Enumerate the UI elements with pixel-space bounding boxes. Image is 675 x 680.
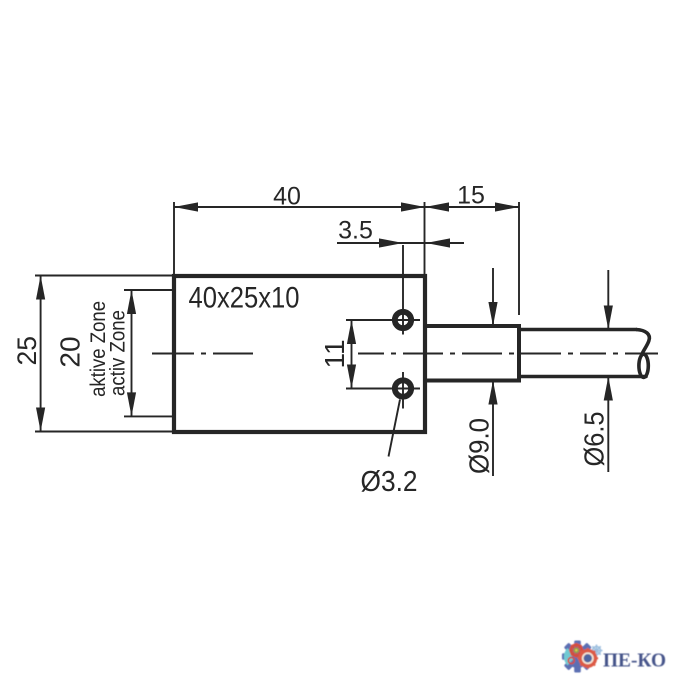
dim 25 dimension line xyxy=(40,276,42,432)
dim 20 top arrowhead xyxy=(127,290,136,314)
cable break curve xyxy=(636,330,649,355)
dim 20 dimension line xyxy=(131,290,133,416)
dim 20 bottom arrowhead xyxy=(127,392,136,416)
dim Ø9.0 lower line xyxy=(492,381,494,477)
cylinder end cap xyxy=(517,324,521,383)
dim 15 right arrowhead xyxy=(495,202,519,211)
sensor body outline 40x25x10 xyxy=(174,276,425,432)
dim 20 top extension line xyxy=(124,289,172,291)
centerline right segment xyxy=(358,353,658,355)
svg-text:Ø3.2: Ø3.2 xyxy=(361,466,418,498)
dim 15 dimension line xyxy=(425,206,519,208)
svg-text:15: 15 xyxy=(457,182,485,210)
svg-text:3.5: 3.5 xyxy=(338,217,373,245)
logo large red gear lower-right xyxy=(580,651,595,666)
hole H2 horizontal center mark / 11-dim lower extension xyxy=(346,388,420,390)
svg-text:11: 11 xyxy=(319,339,350,368)
logo small red ring bottom-left xyxy=(568,658,574,664)
dim 25 top arrowhead xyxy=(36,276,45,300)
dim 11 bottom arrowhead xyxy=(347,365,356,389)
hole H1 horizontal center mark / 11-dim upper extension xyxy=(346,319,420,321)
dim Ø6.5 lower arrowhead xyxy=(604,377,613,401)
dim 11 top arrowhead xyxy=(347,320,356,344)
cable break loop xyxy=(639,354,648,377)
logo large red gear blue center xyxy=(584,654,592,662)
dim 3.5 right arrowhead xyxy=(426,238,450,247)
dim 20 bottom extension line xyxy=(124,415,172,417)
cylinder Ø9 top edge xyxy=(425,324,519,328)
svg-text:40x25x10: 40x25x10 xyxy=(189,282,300,315)
hole H1 upper ring xyxy=(395,312,411,328)
dim 3.5 left arrowhead xyxy=(379,238,403,247)
logo small red gear upper-left xyxy=(571,645,582,656)
svg-text:ПЕ-КО: ПЕ-КО xyxy=(603,651,666,672)
dim 25 top extension line xyxy=(35,275,172,277)
logo small red gear center xyxy=(574,648,579,653)
dim 40 dimension line xyxy=(174,206,425,208)
dim Ø6.5 lower line xyxy=(607,377,609,473)
logo large red gear white ring xyxy=(583,653,593,663)
svg-text:40: 40 xyxy=(273,183,301,211)
svg-text:25: 25 xyxy=(12,336,42,365)
cable Ø6.5 top edge xyxy=(519,328,637,332)
dim 3.5 dimension line xyxy=(337,242,464,244)
dim 40 left arrowhead xyxy=(174,202,198,211)
logo small blue sparkle gear top-right xyxy=(591,645,603,657)
dim Ø6.5 upper arrowhead xyxy=(604,306,613,330)
dim 40 left extension line xyxy=(173,202,175,274)
svg-text:Ø6.5: Ø6.5 xyxy=(579,412,610,467)
dim 25 bottom arrowhead xyxy=(36,408,45,432)
logo teal accent on gear left xyxy=(564,648,573,666)
watermark logo ПЕ-КО xyxy=(562,641,666,673)
svg-text:activ Zone: activ Zone xyxy=(106,310,130,396)
dim 15 left arrowhead xyxy=(425,202,449,211)
dim Ø6.5 upper line xyxy=(607,270,609,330)
cable Ø6.5 bottom edge xyxy=(519,375,646,379)
hole H2 vertical center mark xyxy=(402,372,404,409)
leader line Ø3.2 xyxy=(389,400,401,457)
hole H1 vertical center mark + 3.5 extension line xyxy=(402,245,404,335)
dim 40/15 shared extension line xyxy=(424,202,426,274)
dim Ø9.0 upper arrowhead xyxy=(488,302,497,326)
dim 11 dimension line xyxy=(351,320,353,389)
centerline left segment xyxy=(152,353,253,355)
dim 40 right arrowhead xyxy=(401,202,425,211)
dim Ø9.0 upper line xyxy=(492,268,494,326)
svg-text:20: 20 xyxy=(55,336,86,367)
hole H2 lower ring xyxy=(395,380,411,396)
svg-text:Ø9.0: Ø9.0 xyxy=(464,418,495,474)
dim Ø9.0 lower arrowhead xyxy=(488,381,497,405)
cylinder Ø9 bottom edge xyxy=(425,379,519,383)
dim 25 bottom extension line xyxy=(35,431,172,433)
dim 15 right extension line xyxy=(518,202,520,315)
logo large blue gear xyxy=(562,641,594,673)
